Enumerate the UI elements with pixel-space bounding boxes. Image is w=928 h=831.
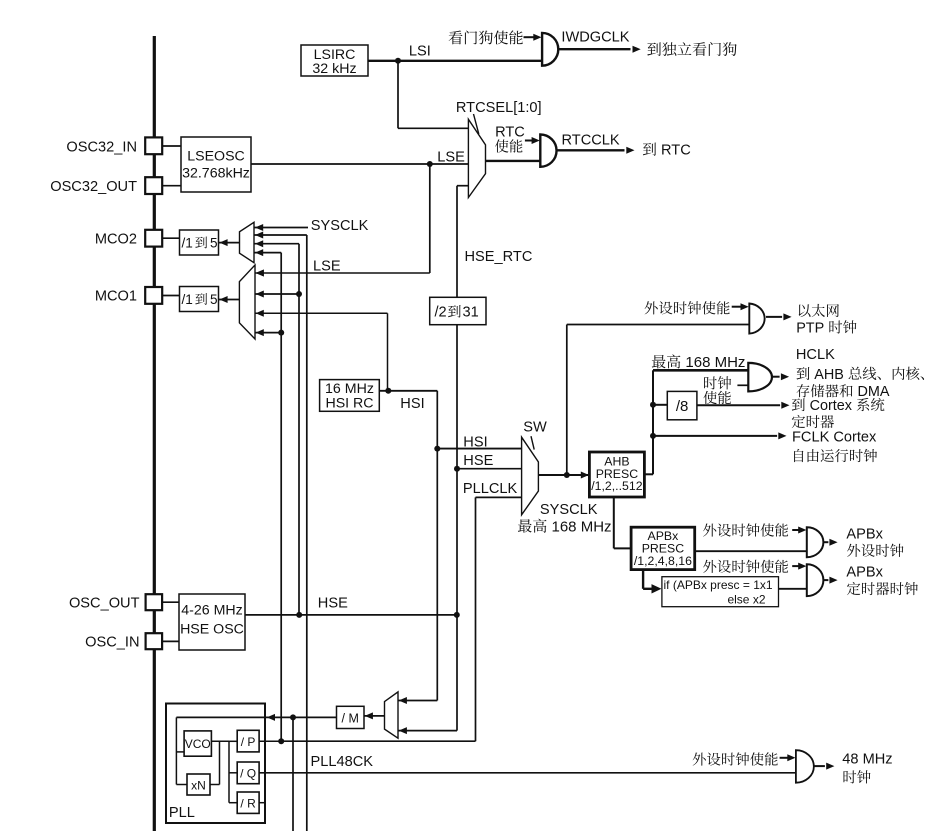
wire into xN bbox=[176, 784, 187, 786]
svg-text:VCO: VCO bbox=[185, 737, 211, 751]
svg-text:/ R: / R bbox=[240, 797, 256, 811]
label to independent watchdog bbox=[647, 42, 736, 56]
label clock enable line2 bbox=[703, 391, 731, 404]
svg-text:HSI: HSI bbox=[400, 396, 424, 412]
label RTC enable line2 bbox=[495, 139, 523, 152]
wire into if-box bbox=[643, 588, 653, 590]
junction LSE bbox=[427, 161, 433, 167]
wire HSE bbox=[245, 614, 457, 616]
arrow APBx timer enable bbox=[798, 563, 806, 570]
arrow into AHB PRESC bbox=[581, 472, 589, 479]
wire HCLK enable bbox=[737, 384, 748, 386]
mux MCO1 source select bbox=[239, 265, 255, 339]
label timer clock bbox=[847, 582, 918, 595]
svg-text:else x2: else x2 bbox=[727, 593, 765, 607]
wire HSE into MCO2 mux bbox=[254, 243, 299, 245]
wire into /R bbox=[229, 802, 237, 804]
mux PLL source select bbox=[385, 692, 399, 738]
svg-text:SW: SW bbox=[523, 420, 547, 436]
arrow LSE into MCO1 mux bbox=[256, 270, 264, 277]
svg-text:32.768kHz: 32.768kHz bbox=[182, 166, 250, 182]
wire PLLI2S into MCO2 mux bbox=[254, 234, 307, 236]
wire /R stub bbox=[259, 802, 266, 804]
wire SYSCLK into PTP gate bbox=[567, 324, 750, 326]
junction LSI bbox=[395, 58, 401, 64]
divider /Q bbox=[237, 762, 259, 784]
arrow cortex timer clock bbox=[781, 402, 789, 409]
wire PTP enable bbox=[732, 306, 742, 308]
svg-text:xN: xN bbox=[191, 778, 206, 792]
svg-text:/1: /1 bbox=[182, 292, 193, 307]
wire OSC32_IN to LSEOSC bbox=[162, 145, 181, 147]
wire PLLCLK into SW mux bbox=[476, 496, 522, 498]
wire HSE vertical to MCO muxes bbox=[298, 244, 300, 615]
wire LSI into RTCSEL mux bbox=[398, 127, 468, 129]
arrow APBx enable bbox=[798, 527, 806, 534]
label ethernet bbox=[799, 304, 839, 317]
wire HSE into PLL mux bbox=[398, 730, 457, 732]
label max 168 MHz at SYSCLK bbox=[518, 519, 612, 536]
arrow PLL into MCO2 bbox=[255, 249, 263, 256]
junction FCLK bbox=[650, 433, 656, 439]
label peripheral clock enable PTP bbox=[645, 301, 730, 314]
arrow HSI into MCO1 bbox=[256, 310, 264, 317]
wire APBx enable bbox=[792, 529, 799, 531]
arrow MCO2 mux output bbox=[219, 239, 227, 246]
svg-text:HSE: HSE bbox=[318, 596, 348, 612]
divider /1 to 5 for MCO2 bbox=[180, 230, 219, 255]
svg-text:HSE OSC: HSE OSC bbox=[180, 621, 244, 637]
wire HCLK output bbox=[772, 376, 780, 378]
wire LSI to RTC mux bbox=[397, 61, 399, 129]
wire HCLK riser bbox=[652, 370, 654, 474]
wire /P output PLLCLK bbox=[259, 740, 281, 742]
svg-text:/8: /8 bbox=[676, 398, 689, 415]
block PLL bbox=[166, 704, 265, 824]
wire LSE into MCO1 mux bbox=[255, 272, 430, 274]
label free running clock bbox=[794, 449, 877, 462]
wire into VCO bbox=[176, 751, 184, 753]
svg-text:LSEOSC: LSEOSC bbox=[187, 149, 245, 165]
svg-text:PLLCLK: PLLCLK bbox=[463, 481, 518, 497]
wire AHB to APBx bbox=[613, 497, 615, 548]
divider /R bbox=[237, 792, 259, 813]
wire RTCCLK bbox=[557, 149, 625, 151]
wire VCO output bbox=[211, 740, 229, 742]
svg-text:OSC32_OUT: OSC32_OUT bbox=[50, 179, 137, 195]
svg-text:/1: /1 bbox=[182, 235, 193, 250]
svg-text:HSI: HSI bbox=[463, 435, 487, 451]
wire OSC32_OUT to LSEOSC bbox=[162, 185, 181, 187]
svg-text:RTCSEL[1:0]: RTCSEL[1:0] bbox=[456, 100, 542, 116]
arrow MCO1 mux output bbox=[219, 296, 227, 303]
mux SW system clock select bbox=[522, 437, 539, 515]
svg-text:16 MHz: 16 MHz bbox=[325, 381, 374, 397]
arrow watchdog enable bbox=[533, 34, 541, 41]
svg-text:/ M: / M bbox=[342, 711, 359, 725]
wire cortex timer clock bbox=[697, 404, 780, 406]
wire PTP output bbox=[766, 316, 782, 318]
svg-text:PLL48CK: PLL48CK bbox=[311, 754, 374, 770]
junction HSE to MCO bbox=[296, 612, 302, 618]
arrow SYSCLK into MCO2 bbox=[255, 224, 263, 231]
junction PLL at MCO1 bbox=[278, 330, 284, 336]
block VCO bbox=[184, 731, 211, 756]
prescaler APBx PRESC bbox=[631, 527, 695, 569]
label timer bbox=[792, 415, 834, 428]
label 48MHz clock bbox=[843, 770, 870, 783]
svg-text:IWDGCLK: IWDGCLK bbox=[561, 29, 629, 45]
junction /M output bbox=[290, 714, 296, 720]
svg-text:32 kHz: 32 kHz bbox=[312, 61, 356, 77]
wire /M output into PLL bbox=[176, 716, 336, 718]
wire MCO2 mux output bbox=[219, 242, 240, 244]
svg-text:31: 31 bbox=[463, 305, 479, 321]
label PTP clock bbox=[796, 320, 856, 336]
mux RTCSEL bbox=[468, 119, 485, 197]
wire PLL vertical to MCO muxes bbox=[280, 253, 282, 742]
svg-text:LSE: LSE bbox=[437, 149, 465, 165]
and-gate HCLK clock gate bbox=[748, 363, 772, 392]
label peripheral clock enable 48MHz bbox=[693, 752, 778, 765]
svg-text:SYSCLK: SYSCLK bbox=[540, 502, 598, 518]
junction HSI bbox=[385, 388, 391, 394]
and-gate ethernet PTP clock gate bbox=[749, 304, 764, 334]
svg-text:168 MHz: 168 MHz bbox=[685, 354, 745, 371]
wire watchdog enable bbox=[524, 36, 535, 38]
wire feedback into xN bbox=[210, 784, 220, 786]
wire into /Q bbox=[229, 772, 237, 774]
wire PLLCLK horizontal bbox=[281, 740, 475, 742]
wire MCO1 pad to divider bbox=[162, 295, 179, 297]
svg-text:FCLK Cortex: FCLK Cortex bbox=[792, 429, 877, 445]
pad OSC_IN bbox=[146, 633, 163, 649]
wire 48MHz output bbox=[814, 765, 825, 767]
label to AHB bus core bbox=[797, 367, 925, 383]
wire PLLCLK vertical bbox=[475, 497, 477, 741]
arrow HSI into PLL mux bbox=[399, 697, 407, 704]
wire PLL into MCO2 mux bbox=[254, 252, 281, 254]
svg-text:APBx: APBx bbox=[846, 526, 883, 542]
svg-text:/ Q: / Q bbox=[240, 767, 256, 781]
arrow HSE into MCO1 bbox=[256, 291, 264, 298]
svg-text:DMA: DMA bbox=[858, 384, 890, 400]
wire LSI bbox=[368, 60, 543, 62]
wire LSE down to MCO1 bbox=[429, 164, 431, 273]
svg-text:HSE_RTC: HSE_RTC bbox=[465, 249, 533, 265]
junction HSE main bbox=[454, 612, 460, 618]
svg-text:/2: /2 bbox=[435, 305, 447, 321]
wire APBx peripheral clock bbox=[823, 541, 828, 543]
svg-text:MCO2: MCO2 bbox=[95, 232, 137, 248]
wire MCO2 pad to divider bbox=[162, 237, 179, 239]
svg-text:/1,2,4,8,16: /1,2,4,8,16 bbox=[634, 554, 692, 568]
wire PLLI2S vertical from bottom bbox=[306, 235, 308, 831]
power/pin bus line bbox=[153, 36, 156, 831]
arrow RTC enable bbox=[532, 137, 540, 144]
wire SYSCLK riser to PTP bbox=[566, 325, 568, 476]
and-gate IWDG clock gate bbox=[542, 33, 558, 66]
arrow PTP output bbox=[783, 313, 791, 320]
svg-text:LSE: LSE bbox=[313, 259, 341, 275]
wire divider distribution bbox=[228, 741, 230, 802]
label peripheral clock enable APBx timer bbox=[703, 560, 788, 573]
junction PLLCLK bbox=[278, 738, 284, 744]
wire HSI into PLL mux bbox=[398, 700, 437, 702]
wire /M to PLLI2S below bbox=[292, 717, 294, 831]
divider /2 to 31 bbox=[430, 297, 486, 324]
wire into /P bbox=[229, 740, 237, 742]
oscillator LSEOSC 32.768kHz bbox=[181, 137, 251, 192]
and-gate RTC clock gate bbox=[540, 135, 556, 167]
wire LSE bbox=[251, 163, 468, 165]
wire IWDGCLK bbox=[558, 48, 630, 50]
label to Cortex system bbox=[792, 398, 885, 414]
wire AHB PRESC output bbox=[644, 473, 653, 475]
wire PLL48CK bbox=[259, 772, 796, 774]
wire HSE into SW mux bbox=[457, 468, 522, 470]
svg-text:168 MHz: 168 MHz bbox=[552, 519, 612, 536]
arrow 48MHz enable bbox=[787, 754, 795, 761]
mux MCO2 source select bbox=[240, 222, 255, 262]
divider /8 bbox=[667, 391, 697, 419]
wire into /8 bbox=[653, 404, 667, 406]
junction to /8 bbox=[650, 402, 656, 408]
wire HSE vertical bbox=[456, 325, 458, 731]
arrow PLL into MCO1 bbox=[256, 329, 264, 336]
wire RTC mux output bbox=[486, 160, 541, 162]
wire APBx timer enable bbox=[792, 565, 799, 567]
svg-text:HSI RC: HSI RC bbox=[325, 396, 373, 412]
wire HCLK into gate bbox=[653, 369, 748, 372]
wire PLL input distribution bbox=[175, 717, 177, 784]
arrow APBx peripheral clock bbox=[829, 539, 837, 546]
oscillator LSIRC 32 kHz bbox=[301, 45, 368, 76]
svg-text:5: 5 bbox=[210, 292, 218, 307]
arrow PTP enable bbox=[741, 303, 749, 310]
svg-text:OSC_OUT: OSC_OUT bbox=[69, 595, 140, 611]
wire if-box output bbox=[779, 588, 807, 590]
svg-text:48 MHz: 48 MHz bbox=[842, 751, 892, 767]
junction SYSCLK bbox=[564, 472, 570, 478]
divider /M bbox=[337, 706, 365, 728]
svg-text:RTCCLK: RTCCLK bbox=[562, 133, 620, 149]
label clock enable line1 bbox=[704, 376, 731, 389]
pad MCO2 bbox=[145, 230, 162, 247]
and-gate 48MHz clock gate bbox=[796, 750, 814, 783]
wire MCO1 mux output bbox=[219, 299, 240, 301]
wire OSC_OUT to HSE OSC bbox=[162, 601, 179, 603]
oscillator 16 MHz HSI RC bbox=[320, 380, 380, 412]
svg-text:OSC_IN: OSC_IN bbox=[85, 635, 139, 651]
wire APBx PRESC output bbox=[695, 550, 807, 552]
wire HSI into MCO1 mux bbox=[255, 312, 388, 314]
svg-text:MCO1: MCO1 bbox=[95, 289, 137, 305]
junction HSE at MCO1 bbox=[296, 291, 302, 297]
svg-text:PLL: PLL bbox=[169, 805, 195, 821]
pad MCO1 bbox=[145, 287, 162, 304]
wire PLL mux output bbox=[364, 715, 385, 717]
wire into APBx PRESC bbox=[614, 547, 631, 549]
pad OSC_OUT bbox=[146, 594, 163, 610]
arrow PLLI2S into MCO2 bbox=[255, 232, 263, 239]
svg-text:/ P: / P bbox=[241, 735, 256, 749]
wire 48MHz enable bbox=[780, 757, 789, 759]
svg-text:4-26 MHz: 4-26 MHz bbox=[181, 602, 243, 618]
arrow FCLK bbox=[778, 432, 786, 439]
multiplier if APBx presc bbox=[662, 577, 779, 607]
arrow into if-box bbox=[652, 584, 662, 593]
label to RTC bbox=[643, 143, 691, 159]
arrow into PLL block bbox=[267, 714, 275, 721]
label peripheral clock enable APBx bbox=[703, 523, 788, 536]
arrow IWDGCLK bbox=[633, 46, 641, 53]
arrow HCLK output bbox=[781, 373, 789, 380]
svg-text:PTP: PTP bbox=[796, 320, 824, 336]
svg-text:Cortex: Cortex bbox=[810, 398, 853, 414]
pad OSC32_IN bbox=[145, 137, 162, 154]
label peripheral clock bbox=[847, 544, 903, 557]
wire HSE_RTC into mux bbox=[457, 185, 468, 187]
junction HSI at SW bbox=[434, 446, 440, 452]
prescaler AHB PRESC bbox=[589, 452, 644, 497]
label memory and DMA bbox=[797, 384, 890, 400]
oscillator 4-26 MHz HSE OSC bbox=[179, 594, 245, 650]
wire VCO feedback bbox=[219, 741, 221, 784]
svg-text:HSE: HSE bbox=[463, 453, 493, 469]
divider /1 to 5 for MCO1 bbox=[180, 287, 219, 312]
label watchdog enable bbox=[449, 30, 523, 44]
and-gate APBx peripheral clock gate bbox=[807, 527, 824, 557]
svg-text:RTC: RTC bbox=[661, 143, 691, 159]
wire HSI vertical bbox=[436, 391, 438, 701]
svg-text:AHB: AHB bbox=[814, 367, 844, 383]
arrow 48MHz output bbox=[826, 763, 834, 770]
wire RTC enable bbox=[525, 140, 533, 142]
wire HSE into MCO1 mux bbox=[255, 293, 299, 295]
wire FCLK bbox=[653, 435, 777, 437]
arrow RTCCLK bbox=[626, 147, 634, 154]
label max 168 MHz at HCLK bbox=[652, 354, 746, 371]
block xN bbox=[187, 774, 210, 795]
arrow HSE into MCO2 bbox=[255, 240, 263, 247]
wire SYSCLK stub into MCO2 mux bbox=[254, 227, 308, 229]
wire PLL into MCO1 mux bbox=[255, 332, 281, 334]
svg-text:/1,2,..512: /1,2,..512 bbox=[591, 479, 642, 493]
select line SW bbox=[531, 436, 534, 449]
pad OSC32_OUT bbox=[145, 177, 162, 194]
wire APBx timer clock bbox=[823, 579, 828, 581]
wire SYSCLK output bbox=[538, 474, 589, 476]
arrow HSE into PLL mux bbox=[399, 727, 407, 734]
svg-text:OSC32_IN: OSC32_IN bbox=[66, 139, 137, 155]
junction HSE at SW bbox=[454, 466, 460, 472]
wire OSC_IN to HSE OSC bbox=[162, 640, 179, 642]
svg-text:HCLK: HCLK bbox=[796, 347, 835, 363]
wire HSI from RC bbox=[379, 390, 437, 392]
svg-text:APBx: APBx bbox=[846, 564, 883, 580]
divider /P bbox=[237, 730, 259, 752]
wire HSI into SW mux bbox=[437, 448, 521, 450]
wire APBx to if-box bbox=[642, 570, 644, 589]
wire HSE_RTC vertical bbox=[456, 186, 458, 298]
and-gate APBx timer clock gate bbox=[807, 564, 824, 596]
arrow into /M bbox=[365, 712, 373, 719]
arrow APBx timer clock bbox=[829, 577, 837, 584]
svg-text:if (APBx presc = 1x1: if (APBx presc = 1x1 bbox=[664, 578, 773, 592]
select line RTCSEL bbox=[474, 114, 479, 134]
svg-text:RTC: RTC bbox=[495, 124, 525, 140]
svg-text:SYSCLK: SYSCLK bbox=[311, 218, 369, 234]
svg-text:LSI: LSI bbox=[409, 43, 431, 59]
svg-text:5: 5 bbox=[210, 235, 218, 250]
wire HSI vertical to MCO1 bbox=[387, 313, 389, 391]
